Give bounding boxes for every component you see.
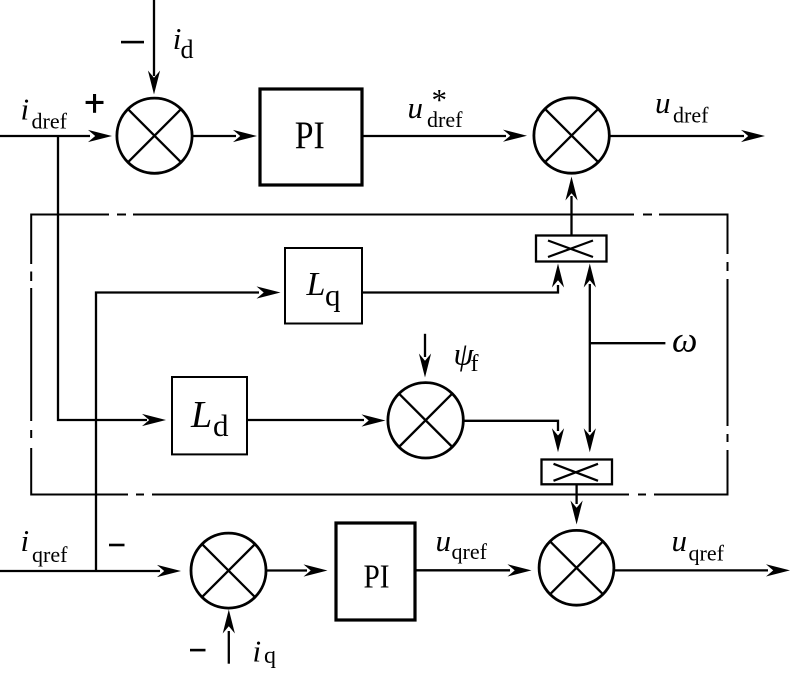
wire i_d from top: [153, 0, 155, 76]
svg-text:PI: PI: [295, 114, 325, 157]
svg-text:qref: qref: [32, 542, 68, 567]
summing junction S1: [117, 98, 192, 173]
dash-dot frame top border: [31, 214, 728, 216]
svg-text:u: u: [672, 523, 688, 558]
svg-text:*: *: [432, 82, 448, 117]
PI block U1: [260, 89, 362, 185]
arrow into M3: [362, 414, 386, 426]
wire PI1 to S2: [362, 135, 506, 137]
label minus bottom: [190, 649, 206, 652]
wire multiplier M1 up to S2: [570, 196, 572, 236]
svg-text:q: q: [325, 278, 341, 313]
arrow into S4 top: [571, 501, 583, 525]
wire branch to Lq: [96, 293, 259, 572]
wire M2 down to S4: [575, 484, 577, 504]
wire omega double arrow: [589, 284, 591, 432]
svg-text:d: d: [181, 35, 194, 64]
arrow omega into M2: [584, 428, 596, 452]
svg-text:qref: qref: [689, 541, 725, 566]
arrow psi_f into M3: [419, 354, 431, 378]
PI block U2: [336, 523, 415, 620]
summing junction S4: [539, 530, 614, 605]
svg-text:PI: PI: [364, 559, 390, 596]
wire omega label stub: [590, 342, 666, 344]
arrow into Lq: [257, 286, 281, 298]
arrow omega into M1: [584, 264, 596, 288]
wire branch from i_dref down to Ld: [58, 136, 147, 420]
arrow M3 output into M2: [552, 428, 564, 452]
wire PI2 to S4: [415, 569, 510, 571]
label minus top: [121, 41, 144, 44]
svg-text:i: i: [21, 523, 30, 558]
arrow u_dref output: [741, 130, 765, 142]
wire Ld to M3: [247, 419, 364, 421]
wire S4 output u_qref: [614, 569, 768, 571]
svg-text:L: L: [306, 266, 326, 303]
svg-text:dref: dref: [32, 109, 68, 134]
dash-dot frame right border: [727, 214, 729, 496]
Ld block: [172, 377, 247, 454]
dash-dot frame left border: [30, 214, 32, 496]
arrow i_d into S1: [148, 71, 160, 95]
dash-dot frame bottom border: [31, 494, 728, 496]
arrow into summing junction S1: [88, 130, 112, 142]
multiplier junction M3: [388, 383, 463, 458]
wire i_dref input: [0, 135, 90, 137]
arrow into S4: [508, 564, 532, 576]
wire S2 output u_dref: [609, 135, 744, 137]
arrow into S2: [503, 130, 527, 142]
arrow into PI2: [304, 564, 328, 576]
arrow i_q into S3: [223, 610, 235, 634]
svg-text:q: q: [264, 643, 276, 669]
svg-text:d: d: [213, 408, 229, 443]
svg-text:u: u: [436, 523, 452, 558]
wire psi_f input: [424, 334, 426, 357]
label plus sign: [86, 101, 104, 104]
arrow Lq output into M1: [552, 264, 564, 288]
Lq block: [285, 248, 362, 324]
multiplier box M2: [542, 460, 613, 485]
svg-text:f: f: [471, 351, 479, 377]
wire S1 to PI1: [192, 135, 236, 137]
svg-text:u: u: [408, 90, 424, 125]
svg-text:L: L: [190, 394, 212, 436]
svg-text:dref: dref: [673, 103, 709, 128]
summing junction S3: [191, 533, 266, 608]
svg-text:i: i: [21, 92, 30, 127]
wire S3 to PI2: [266, 569, 307, 571]
arrow into PI1: [233, 130, 257, 142]
arrow u_qref output: [766, 564, 790, 576]
arrow into S3: [157, 565, 181, 577]
summing junction S2: [534, 98, 609, 173]
multiplier box M1: [536, 236, 607, 262]
wire i_q from bottom: [228, 631, 230, 664]
wire i_qref input: [0, 570, 160, 572]
svg-text:i: i: [253, 634, 262, 669]
arrow into Ld: [142, 414, 166, 426]
svg-text:u: u: [655, 85, 671, 120]
arrow into S2 bottom: [565, 177, 577, 201]
svg-text:ω: ω: [672, 320, 697, 360]
wire Lq to M1: [362, 285, 558, 293]
svg-text:qref: qref: [452, 539, 488, 564]
wire M3 to M2: [463, 421, 558, 431]
label minus mid: [109, 544, 125, 547]
